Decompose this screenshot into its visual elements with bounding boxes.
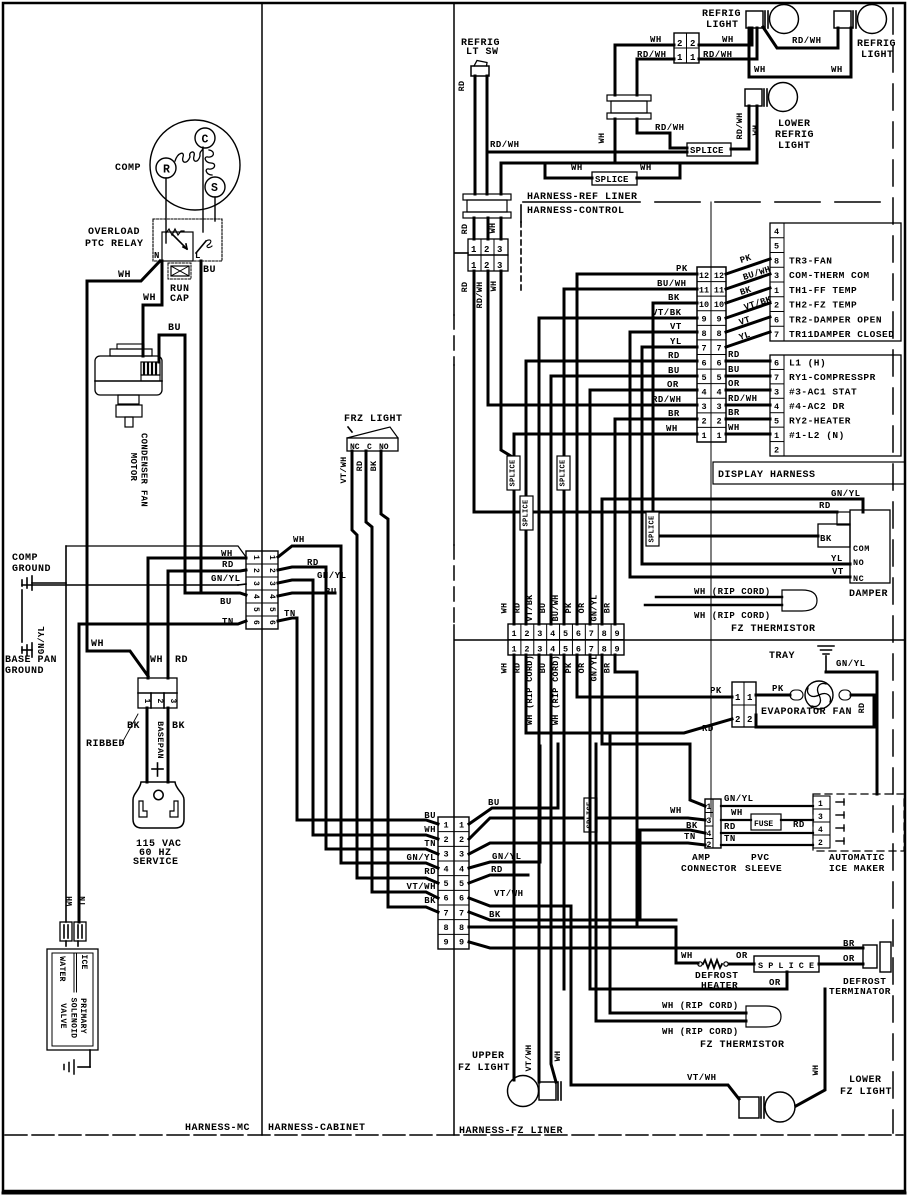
svg-text:DISPLAY HARNESS: DISPLAY HARNESS (718, 470, 816, 481)
svg-text:8: 8 (459, 923, 464, 933)
svg-text:WH: WH (681, 951, 693, 961)
svg-text:C: C (202, 134, 209, 147)
svg-text:WH: WH (91, 639, 104, 650)
svg-text:CONDENSER FAN: CONDENSER FAN (139, 433, 149, 507)
svg-text:7: 7 (716, 344, 721, 354)
svg-text:8: 8 (602, 629, 607, 639)
svg-text:RD/WH: RD/WH (728, 394, 758, 404)
svg-text:WH: WH (221, 549, 233, 559)
svg-text:GN/YL: GN/YL (317, 571, 347, 581)
svg-text:10: 10 (699, 300, 709, 310)
svg-text:OVERLOAD: OVERLOAD (88, 227, 140, 238)
svg-text:FRZ LIGHT: FRZ LIGHT (344, 414, 403, 425)
svg-text:COM-THERM COM: COM-THERM COM (789, 270, 870, 281)
svg-text:WH: WH (722, 35, 734, 45)
svg-text:WH: WH (553, 1051, 563, 1062)
svg-text:TN: TN (79, 896, 88, 906)
svg-text:TR2-DAMPER OPEN: TR2-DAMPER OPEN (789, 314, 882, 325)
svg-text:6: 6 (576, 629, 581, 639)
svg-text:BU/WH: BU/WH (657, 279, 687, 289)
svg-text:4: 4 (701, 387, 706, 397)
svg-text:RD: RD (460, 224, 470, 235)
svg-text:1: 1 (443, 820, 448, 830)
svg-text:YL: YL (831, 554, 843, 564)
svg-text:WH: WH (66, 896, 75, 906)
svg-text:PK: PK (710, 686, 722, 696)
svg-text:1: 1 (142, 698, 151, 703)
svg-text:OR: OR (577, 602, 587, 613)
svg-text:SPLICE: SPLICE (649, 515, 657, 542)
svg-text:S: S (211, 182, 218, 195)
svg-text:TN: TN (424, 839, 436, 849)
svg-text:RIBBED: RIBBED (86, 739, 125, 750)
svg-text:1: 1 (818, 800, 823, 809)
svg-text:2: 2 (707, 841, 712, 850)
svg-text:OR: OR (667, 380, 679, 390)
svg-text:1: 1 (774, 286, 779, 296)
svg-text:BK: BK (127, 721, 140, 732)
svg-text:BR: BR (668, 409, 680, 419)
svg-text:8: 8 (701, 329, 706, 339)
svg-text:VT/WH: VT/WH (406, 882, 436, 892)
svg-text:BR: BR (843, 939, 855, 949)
svg-text:9: 9 (615, 629, 620, 639)
svg-text:COMP: COMP (12, 553, 38, 564)
svg-text:GN/YL: GN/YL (724, 794, 754, 804)
svg-text:1: 1 (701, 431, 706, 441)
svg-text:WH: WH (293, 535, 305, 545)
svg-text:WH: WH (831, 65, 843, 75)
svg-text:RD: RD (728, 350, 740, 360)
svg-text:5: 5 (459, 879, 464, 889)
svg-text:RY2-HEATER: RY2-HEATER (789, 415, 851, 426)
svg-text:1: 1 (459, 820, 464, 830)
svg-text:2: 2 (267, 568, 276, 573)
svg-text:8: 8 (443, 923, 448, 933)
svg-text:WH: WH (150, 655, 163, 666)
svg-text:VT/WH: VT/WH (339, 456, 349, 483)
svg-text:3: 3 (537, 629, 542, 639)
svg-text:LIGHT: LIGHT (706, 20, 739, 31)
svg-text:TN: TN (284, 609, 296, 619)
svg-text:RD/WH: RD/WH (475, 281, 485, 308)
svg-text:11: 11 (714, 285, 724, 295)
svg-text:RD: RD (175, 655, 188, 666)
svg-text:5: 5 (267, 607, 276, 612)
svg-text:WH (RIP CORD): WH (RIP CORD) (694, 611, 771, 621)
svg-text:3: 3 (443, 850, 448, 860)
svg-text:5: 5 (443, 879, 448, 889)
svg-text:8: 8 (602, 645, 607, 655)
svg-text:6: 6 (251, 620, 260, 625)
svg-text:2: 2 (701, 417, 706, 427)
svg-text:BK: BK (489, 910, 501, 920)
svg-text:PRIMARY: PRIMARY (78, 998, 87, 1034)
svg-text:BK: BK (686, 821, 698, 831)
svg-text:4: 4 (251, 594, 260, 599)
svg-text:7: 7 (701, 344, 706, 354)
svg-text:3: 3 (707, 817, 712, 826)
svg-text:2: 2 (747, 715, 752, 725)
svg-text:6: 6 (443, 894, 448, 904)
svg-text:6: 6 (267, 620, 276, 625)
svg-text:#1-L2 (N): #1-L2 (N) (789, 430, 845, 441)
svg-text:TERMINATOR: TERMINATOR (829, 986, 891, 997)
svg-text:5: 5 (716, 373, 721, 383)
svg-text:4: 4 (774, 402, 779, 412)
svg-text:4: 4 (443, 864, 448, 874)
svg-text:SPLICE: SPLICE (587, 801, 595, 828)
svg-text:6: 6 (716, 358, 721, 368)
svg-text:BU: BU (220, 597, 232, 607)
svg-text:1: 1 (471, 261, 477, 271)
svg-text:HARNESS-REF LINER: HARNESS-REF LINER (527, 192, 638, 203)
svg-text:PTC RELAY: PTC RELAY (85, 239, 144, 250)
svg-text:PK: PK (564, 602, 574, 613)
svg-text:LOWER: LOWER (778, 119, 811, 130)
svg-text:BASE PAN: BASE PAN (5, 655, 57, 666)
svg-text:5: 5 (774, 242, 779, 252)
svg-text:4: 4 (818, 826, 823, 835)
svg-text:RD: RD (491, 865, 503, 875)
svg-text:HARNESS-CONTROL: HARNESS-CONTROL (527, 206, 625, 217)
svg-text:7: 7 (443, 908, 448, 918)
svg-text:GN/YL: GN/YL (831, 489, 861, 499)
svg-text:BU: BU (538, 603, 548, 614)
svg-text:PK: PK (564, 662, 574, 673)
svg-text:CONNECTOR: CONNECTOR (681, 863, 737, 874)
svg-text:BU: BU (728, 365, 740, 375)
svg-text:YL: YL (670, 337, 682, 347)
svg-text:GN/YL: GN/YL (211, 574, 241, 584)
svg-text:#4-AC2 DR: #4-AC2 DR (789, 401, 845, 412)
svg-text:10: 10 (714, 300, 724, 310)
svg-text:BR: BR (603, 602, 613, 613)
svg-text:FUSE: FUSE (754, 820, 773, 829)
svg-text:3: 3 (168, 698, 177, 703)
svg-text:8: 8 (716, 329, 721, 339)
svg-text:RD/WH: RD/WH (652, 395, 682, 405)
svg-text:WH: WH (670, 806, 682, 816)
svg-text:TN: TN (684, 832, 696, 842)
svg-text:6: 6 (459, 894, 464, 904)
svg-text:3: 3 (459, 850, 464, 860)
svg-text:BU: BU (325, 587, 337, 597)
svg-text:BK: BK (820, 534, 832, 544)
svg-text:SERVICE: SERVICE (133, 857, 179, 868)
svg-text:GN/YL: GN/YL (836, 659, 866, 669)
svg-text:1: 1 (690, 53, 696, 63)
svg-text:2: 2 (690, 39, 695, 49)
svg-text:VT/BK: VT/BK (525, 594, 535, 622)
svg-text:3: 3 (701, 402, 706, 412)
svg-text:PK: PK (772, 684, 784, 694)
svg-text:2: 2 (484, 261, 489, 271)
svg-text:NO: NO (853, 558, 864, 568)
svg-text:AMP: AMP (692, 852, 711, 863)
svg-text:S P L I C E: S P L I C E (758, 961, 814, 971)
svg-text:3: 3 (267, 581, 276, 586)
svg-text:VT: VT (670, 322, 682, 332)
svg-text:2: 2 (484, 245, 489, 255)
svg-text:2: 2 (774, 301, 779, 311)
svg-text:RD: RD (222, 560, 234, 570)
svg-text:4: 4 (550, 629, 555, 639)
svg-text:12: 12 (699, 271, 709, 281)
svg-text:ICE: ICE (79, 954, 88, 969)
svg-text:VT/BK: VT/BK (652, 308, 682, 318)
svg-text:2: 2 (443, 835, 448, 845)
svg-text:RD: RD (424, 867, 436, 877)
svg-text:RD/WH: RD/WH (735, 112, 745, 139)
svg-text:TR11DAMPER CLOSED: TR11DAMPER CLOSED (789, 329, 894, 340)
svg-text:BR: BR (728, 408, 740, 418)
svg-text:PVC: PVC (751, 852, 770, 863)
svg-text:RD: RD (512, 663, 522, 674)
svg-text:RD: RD (857, 703, 867, 714)
svg-text:RY1-COMPRESSPR: RY1-COMPRESSPR (789, 372, 876, 383)
svg-text:3: 3 (716, 402, 721, 412)
svg-text:RD: RD (355, 461, 365, 472)
svg-text:LIGHT: LIGHT (861, 50, 894, 61)
svg-text:LIGHT: LIGHT (778, 141, 811, 152)
svg-text:GN/YL: GN/YL (492, 852, 522, 862)
svg-text:WH: WH (666, 424, 678, 434)
svg-text:HEATER: HEATER (701, 980, 738, 991)
svg-text:COMP: COMP (115, 163, 141, 174)
svg-text:COM: COM (853, 544, 870, 554)
svg-text:GROUND: GROUND (5, 666, 44, 677)
svg-text:9: 9 (443, 938, 448, 948)
svg-text:GROUND: GROUND (12, 564, 51, 575)
svg-text:4: 4 (707, 830, 712, 839)
svg-text:C: C (367, 443, 372, 452)
svg-text:OR: OR (577, 662, 587, 673)
svg-text:9: 9 (716, 315, 721, 325)
svg-text:NC: NC (853, 574, 864, 584)
svg-text:WH: WH (118, 270, 131, 281)
svg-text:2: 2 (155, 698, 164, 703)
svg-text:TN: TN (222, 617, 234, 627)
svg-text:WH: WH (640, 163, 652, 173)
svg-text:BU: BU (203, 265, 216, 276)
svg-text:GN/YL: GN/YL (590, 654, 600, 681)
svg-text:TN: TN (724, 834, 736, 844)
svg-text:SPLICE: SPLICE (690, 146, 724, 156)
svg-text:5: 5 (563, 645, 568, 655)
svg-text:3: 3 (774, 271, 779, 281)
svg-text:1: 1 (471, 245, 477, 255)
svg-text:WH (RIP CORD): WH (RIP CORD) (662, 1027, 739, 1037)
svg-text:REFRIG: REFRIG (702, 9, 741, 20)
svg-text:WH: WH (488, 223, 498, 234)
svg-text:NC: NC (350, 443, 360, 452)
svg-text:4: 4 (716, 387, 721, 397)
svg-text:8: 8 (774, 256, 779, 266)
svg-text:4: 4 (459, 864, 464, 874)
svg-text:9: 9 (459, 938, 464, 948)
svg-text:BK: BK (424, 896, 436, 906)
svg-text:WATER: WATER (57, 956, 66, 982)
svg-text:FZ LIGHT: FZ LIGHT (840, 1087, 892, 1098)
svg-text:1: 1 (251, 555, 260, 560)
svg-text:5: 5 (251, 607, 260, 612)
svg-text:VALVE: VALVE (58, 1003, 67, 1029)
svg-text:TH1-FF TEMP: TH1-FF TEMP (789, 285, 857, 296)
svg-text:4: 4 (550, 645, 555, 655)
svg-text:NO: NO (379, 443, 389, 452)
svg-text:11: 11 (699, 285, 709, 295)
svg-text:6: 6 (774, 315, 779, 325)
svg-text:2: 2 (735, 715, 740, 725)
svg-text:RD: RD (512, 603, 522, 614)
svg-text:REFRIG: REFRIG (775, 130, 814, 141)
svg-text:WH: WH (754, 65, 766, 75)
svg-text:WH: WH (731, 808, 743, 818)
svg-text:GN/YL: GN/YL (406, 853, 436, 863)
svg-text:VT/WH: VT/WH (494, 889, 524, 899)
svg-text:2: 2 (774, 445, 779, 455)
svg-text:12: 12 (714, 271, 724, 281)
svg-text:RD/WH: RD/WH (637, 50, 667, 60)
svg-text:1: 1 (511, 645, 516, 655)
svg-text:BK: BK (369, 460, 379, 471)
svg-text:9: 9 (701, 315, 706, 325)
svg-text:WH: WH (728, 423, 740, 433)
svg-text:BU: BU (424, 811, 436, 821)
svg-text:VT: VT (832, 567, 844, 577)
svg-text:1: 1 (735, 693, 741, 703)
svg-text:OR: OR (736, 951, 748, 961)
svg-text:WH: WH (143, 293, 156, 304)
svg-text:OR: OR (843, 954, 855, 964)
svg-text:RD: RD (457, 81, 467, 92)
svg-text:LT SW: LT SW (466, 47, 499, 58)
svg-text:WH: WH (650, 35, 662, 45)
svg-text:BU: BU (538, 663, 548, 674)
svg-text:1: 1 (774, 431, 779, 441)
svg-text:2: 2 (677, 39, 682, 49)
svg-text:ICE MAKER: ICE MAKER (829, 863, 885, 874)
svg-text:#3-AC1 STAT: #3-AC1 STAT (789, 387, 857, 398)
svg-text:7: 7 (774, 373, 779, 383)
svg-text:3: 3 (774, 388, 779, 398)
svg-text:RD: RD (668, 351, 680, 361)
svg-text:VT/WH: VT/WH (687, 1073, 717, 1083)
svg-text:3: 3 (537, 645, 542, 655)
svg-text:GN/YL: GN/YL (37, 626, 47, 655)
svg-text:WH (RIP CORD): WH (RIP CORD) (694, 587, 771, 597)
svg-text:VT/WH: VT/WH (524, 1044, 534, 1071)
svg-text:REFRIG: REFRIG (857, 39, 896, 50)
svg-text:SPLICE: SPLICE (560, 459, 568, 486)
svg-text:1: 1 (716, 431, 721, 441)
svg-text:9: 9 (615, 645, 620, 655)
svg-text:WH: WH (424, 825, 436, 835)
svg-text:2: 2 (251, 568, 260, 573)
svg-text:EVAPORATOR FAN: EVAPORATOR FAN (761, 707, 852, 718)
svg-text:R: R (163, 164, 170, 177)
svg-text:7: 7 (589, 645, 594, 655)
svg-text:N: N (154, 251, 160, 261)
svg-text:CAP: CAP (170, 294, 190, 305)
svg-text:3: 3 (497, 245, 502, 255)
svg-text:SPLICE: SPLICE (595, 175, 629, 185)
svg-text:1: 1 (677, 53, 683, 63)
svg-text:FZ THERMISTOR: FZ THERMISTOR (731, 624, 816, 635)
svg-text:RD: RD (724, 822, 736, 832)
svg-text:RD/WH: RD/WH (490, 140, 520, 150)
svg-text:1: 1 (747, 693, 753, 703)
svg-text:FZ THERMISTOR: FZ THERMISTOR (700, 1040, 785, 1051)
svg-text:WH: WH (571, 163, 583, 173)
svg-text:AUTOMATIC: AUTOMATIC (829, 852, 885, 863)
svg-text:WH: WH (751, 125, 761, 136)
svg-text:WH: WH (597, 133, 607, 144)
svg-text:GN/YL: GN/YL (590, 594, 600, 621)
svg-text:L1 (H): L1 (H) (789, 358, 826, 369)
svg-text:RD/WH: RD/WH (703, 50, 733, 60)
svg-text:RD: RD (460, 282, 470, 293)
svg-text:FZ LIGHT: FZ LIGHT (458, 1063, 510, 1074)
svg-text:WH: WH (499, 603, 509, 614)
svg-text:4: 4 (267, 594, 276, 599)
svg-text:WH (RIP CORD): WH (RIP CORD) (662, 1001, 739, 1011)
svg-text:LOWER: LOWER (849, 1075, 882, 1086)
svg-text:RD/WH: RD/WH (792, 36, 822, 46)
svg-text:HARNESS-FZ LINER: HARNESS-FZ LINER (459, 1126, 563, 1137)
svg-text:5: 5 (563, 629, 568, 639)
svg-text:2: 2 (524, 645, 529, 655)
svg-text:3: 3 (251, 581, 260, 586)
svg-text:OR: OR (728, 379, 740, 389)
svg-text:BU: BU (488, 798, 500, 808)
svg-text:RD: RD (307, 558, 319, 568)
svg-text:7: 7 (459, 908, 464, 918)
svg-text:1: 1 (511, 629, 516, 639)
svg-text:RD: RD (793, 820, 805, 830)
svg-text:2: 2 (818, 839, 823, 848)
svg-text:4: 4 (774, 227, 779, 237)
svg-text:WH: WH (489, 281, 499, 292)
svg-text:RD: RD (702, 724, 714, 734)
svg-text:3: 3 (818, 813, 823, 822)
svg-text:3: 3 (497, 261, 502, 271)
svg-text:BK: BK (668, 293, 680, 303)
svg-text:DAMPER: DAMPER (849, 589, 888, 600)
svg-text:TH2-FZ TEMP: TH2-FZ TEMP (789, 300, 857, 311)
svg-text:2: 2 (716, 417, 721, 427)
svg-text:6: 6 (701, 358, 706, 368)
svg-text:SOLENOID: SOLENOID (69, 998, 78, 1039)
svg-text:BASEPAN: BASEPAN (155, 721, 165, 759)
svg-text:7: 7 (774, 330, 779, 340)
svg-text:SPLICE: SPLICE (510, 459, 518, 486)
svg-text:WH: WH (499, 663, 509, 674)
svg-text:BU: BU (668, 366, 680, 376)
svg-text:6: 6 (576, 645, 581, 655)
svg-text:WH (RIP CORD): WH (RIP CORD) (551, 655, 561, 725)
svg-text:1: 1 (267, 555, 276, 560)
svg-text:2: 2 (524, 629, 529, 639)
svg-text:HARNESS-MC: HARNESS-MC (185, 1123, 250, 1134)
svg-text:1: 1 (707, 803, 712, 812)
svg-text:2: 2 (459, 835, 464, 845)
svg-text:WH: WH (811, 1065, 821, 1076)
svg-text:BU: BU (168, 323, 181, 334)
svg-text:BK: BK (172, 721, 185, 732)
svg-text:TR3-FAN: TR3-FAN (789, 255, 832, 266)
